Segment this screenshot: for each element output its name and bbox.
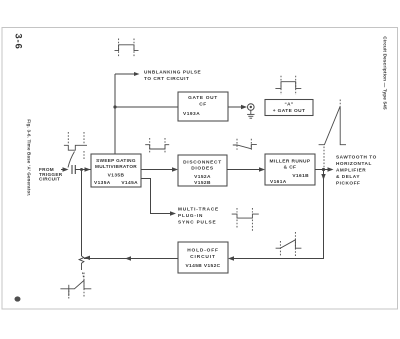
svg-text:HORIZONTAL: HORIZONTAL bbox=[336, 161, 372, 166]
svg-text:“A”: “A” bbox=[284, 102, 293, 107]
junction node unblanking bbox=[113, 105, 116, 108]
svg-text:MILLER RUNUP: MILLER RUNUP bbox=[269, 159, 310, 165]
waveform sawtooth A bbox=[319, 100, 346, 169]
svg-text:V145B V152C: V145B V152C bbox=[185, 263, 220, 269]
waveform pulse top bbox=[115, 39, 139, 57]
svg-text:+ GATE OUT: + GATE OUT bbox=[273, 108, 306, 114]
svg-text:CF: CF bbox=[199, 102, 206, 108]
arrow trigger input bbox=[63, 167, 69, 171]
svg-text:SYNC PULSE: SYNC PULSE bbox=[178, 220, 216, 225]
arrow into connector bbox=[241, 105, 247, 109]
arrow into disconnect box bbox=[172, 167, 178, 171]
waveform negative pulse multivib bbox=[145, 138, 169, 153]
label sawtooth out bbox=[336, 155, 377, 186]
printer mark bottom left bbox=[15, 296, 21, 301]
svg-text:SWEEP GATING: SWEEP GATING bbox=[96, 158, 136, 163]
waveform pulse gate out bbox=[275, 76, 301, 95]
svg-text:V135A: V135A bbox=[94, 180, 111, 186]
svg-text:V152A: V152A bbox=[194, 174, 211, 180]
waveform holdoff ramp bbox=[276, 232, 302, 257]
svg-text:MULTI-TRACE: MULTI-TRACE bbox=[178, 207, 219, 212]
svg-text:PLUG-IN: PLUG-IN bbox=[178, 213, 203, 218]
arrow into multivibrator bbox=[85, 167, 91, 171]
connector jack bbox=[247, 104, 254, 119]
svg-text:SAWTOOTH TO: SAWTOOTH TO bbox=[336, 155, 377, 160]
box gate out CF V193A bbox=[178, 92, 228, 121]
waveform multitrace pulse bbox=[232, 208, 259, 231]
svg-text:3-6: 3-6 bbox=[13, 33, 24, 49]
svg-text:V161B: V161B bbox=[292, 173, 309, 179]
box disconnect diodes bbox=[178, 155, 227, 186]
wire gate out to connector bbox=[228, 106, 242, 108]
svg-text:MULTIVIBRATOR: MULTIVIBRATOR bbox=[95, 164, 137, 169]
arrow into miller box bbox=[259, 167, 265, 171]
wire to gate out box bbox=[115, 106, 178, 108]
squiggle at feedback junction bbox=[79, 256, 84, 270]
ground bbox=[250, 110, 252, 114]
svg-text:V152B: V152B bbox=[194, 180, 211, 186]
label multitrace sync bbox=[178, 207, 219, 225]
label unblanking pulse bbox=[144, 70, 201, 82]
junction node trigger/holdoff bbox=[80, 168, 83, 171]
svg-text:DISCONNECT: DISCONNECT bbox=[183, 160, 222, 166]
wire miller to sawtooth out bbox=[315, 169, 328, 171]
box holdoff circuit bbox=[178, 242, 228, 273]
svg-text:CIRCUIT: CIRCUIT bbox=[39, 177, 60, 182]
arrow to unblanking label bbox=[134, 72, 140, 76]
svg-text:& CF: & CF bbox=[284, 165, 297, 171]
wire holdoff feedback vertical bbox=[81, 170, 83, 257]
svg-text:V135B: V135B bbox=[108, 173, 125, 179]
svg-text:AMPLIFIER: AMPLIFIER bbox=[336, 168, 366, 173]
label from trigger circuit bbox=[39, 167, 63, 182]
svg-text:V161A: V161A bbox=[270, 179, 287, 185]
wire unblanking horizontal bbox=[115, 73, 134, 75]
arrow feedback mid bbox=[125, 256, 131, 260]
wire multivib to disconnect bbox=[141, 169, 172, 171]
arrow into holdoff box bbox=[228, 256, 234, 260]
svg-text:& DELAY: & DELAY bbox=[336, 174, 360, 179]
svg-text:DIODES: DIODES bbox=[191, 166, 214, 172]
svg-text:Fig. 3-6. Time Base ‘A’ Genera: Fig. 3-6. Time Base ‘A’ Generator. bbox=[27, 119, 32, 196]
arrow sawtooth output bbox=[328, 167, 334, 171]
box A gate out bbox=[265, 100, 313, 116]
waveform trigger pulse bbox=[64, 132, 87, 168]
wire trigger input bbox=[61, 169, 64, 171]
arrow multitrace bbox=[170, 211, 176, 215]
capacitor coupling bbox=[72, 165, 75, 174]
svg-text:Circuit Description — Type 545: Circuit Description — Type 545 bbox=[383, 36, 388, 110]
svg-text:V193A: V193A bbox=[183, 111, 200, 117]
svg-text:TO CRT CIRCUIT: TO CRT CIRCUIT bbox=[144, 76, 189, 81]
box sweep gating multivibrator bbox=[91, 154, 141, 187]
wire disconnect to miller bbox=[227, 169, 259, 171]
wire holdoff feedback horizontal bbox=[84, 258, 178, 260]
box miller runup bbox=[265, 154, 315, 185]
svg-text:V145A: V145A bbox=[121, 180, 138, 186]
waveform bottom sweep start bbox=[60, 273, 91, 299]
junction node sawtooth bbox=[322, 168, 325, 171]
waveform disconnect ramp bbox=[233, 139, 257, 150]
arrow down to holdoff bbox=[321, 174, 325, 180]
svg-text:CIRCUIT: CIRCUIT bbox=[190, 254, 216, 260]
wire unblanking vertical bbox=[114, 74, 116, 154]
wire multitrace sync bbox=[141, 179, 170, 214]
svg-text:GATE OUT: GATE OUT bbox=[188, 95, 218, 101]
wire capacitor to multivibrator bbox=[75, 169, 91, 171]
svg-text:UNBLANKING PULSE: UNBLANKING PULSE bbox=[144, 70, 201, 75]
wire miller to holdoff bbox=[234, 170, 324, 259]
arrow feedback end bbox=[84, 256, 90, 260]
svg-text:HOLD-OFF: HOLD-OFF bbox=[187, 248, 219, 254]
svg-text:PICKOFF: PICKOFF bbox=[336, 181, 360, 186]
